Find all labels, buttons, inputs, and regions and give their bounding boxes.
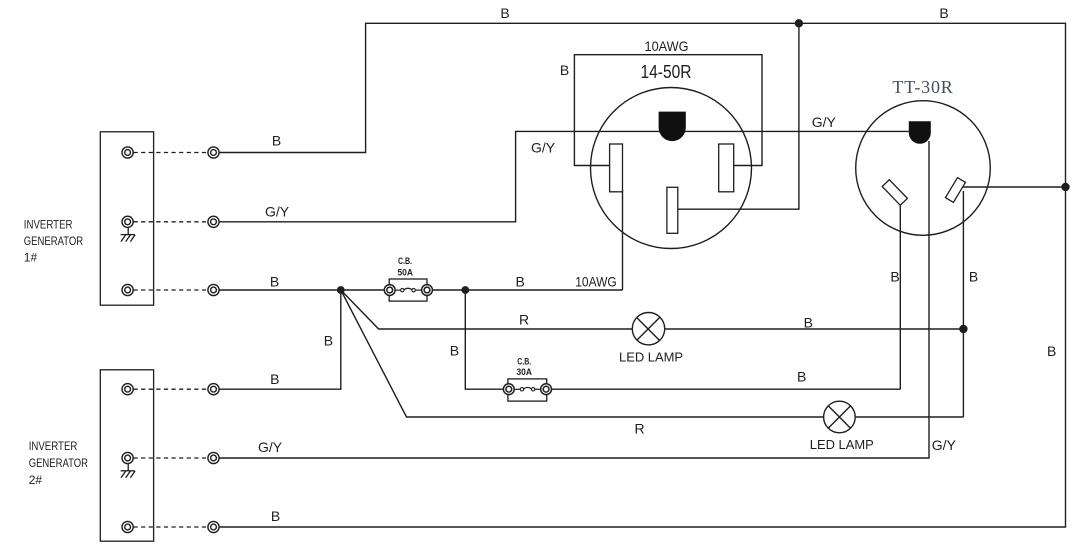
svg-text:LED LAMP: LED LAMP <box>810 437 874 452</box>
svg-text:50A: 50A <box>397 267 413 278</box>
svg-text:B: B <box>969 269 978 285</box>
svg-text:B: B <box>516 273 525 289</box>
svg-text:INVERTER: INVERTER <box>29 439 78 453</box>
svg-text:INVERTER: INVERTER <box>24 217 73 231</box>
svg-text:B: B <box>560 62 569 78</box>
svg-text:B: B <box>804 315 813 331</box>
svg-text:C.B.: C.B. <box>398 256 412 267</box>
svg-text:B: B <box>500 5 509 21</box>
svg-text:G/Y: G/Y <box>265 204 290 220</box>
svg-text:GENERATOR: GENERATOR <box>24 234 84 248</box>
svg-text:B: B <box>324 333 333 349</box>
svg-text:B: B <box>939 5 948 21</box>
svg-text:B: B <box>450 342 459 358</box>
svg-text:10AWG: 10AWG <box>575 273 617 289</box>
svg-text:1#: 1# <box>24 251 38 265</box>
svg-text:B: B <box>270 273 279 289</box>
svg-text:B: B <box>797 369 806 385</box>
svg-text:B: B <box>270 371 279 387</box>
svg-text:B: B <box>890 269 899 285</box>
svg-text:G/Y: G/Y <box>258 439 283 455</box>
svg-text:B: B <box>272 133 281 149</box>
svg-text:B: B <box>271 508 280 524</box>
svg-text:10AWG: 10AWG <box>645 38 689 54</box>
svg-text:C.B.: C.B. <box>517 357 531 368</box>
svg-text:G/Y: G/Y <box>531 139 556 155</box>
svg-text:G/Y: G/Y <box>812 114 837 130</box>
svg-text:R: R <box>634 421 644 437</box>
svg-text:14-50R: 14-50R <box>641 62 692 82</box>
svg-text:B: B <box>1047 343 1056 359</box>
svg-text:R: R <box>519 312 529 328</box>
svg-text:GENERATOR: GENERATOR <box>29 456 89 470</box>
svg-text:TT-30R: TT-30R <box>892 77 953 97</box>
svg-text:30A: 30A <box>516 367 532 378</box>
svg-text:LED LAMP: LED LAMP <box>619 349 683 364</box>
svg-text:G/Y: G/Y <box>932 437 957 453</box>
svg-text:2#: 2# <box>29 473 43 487</box>
